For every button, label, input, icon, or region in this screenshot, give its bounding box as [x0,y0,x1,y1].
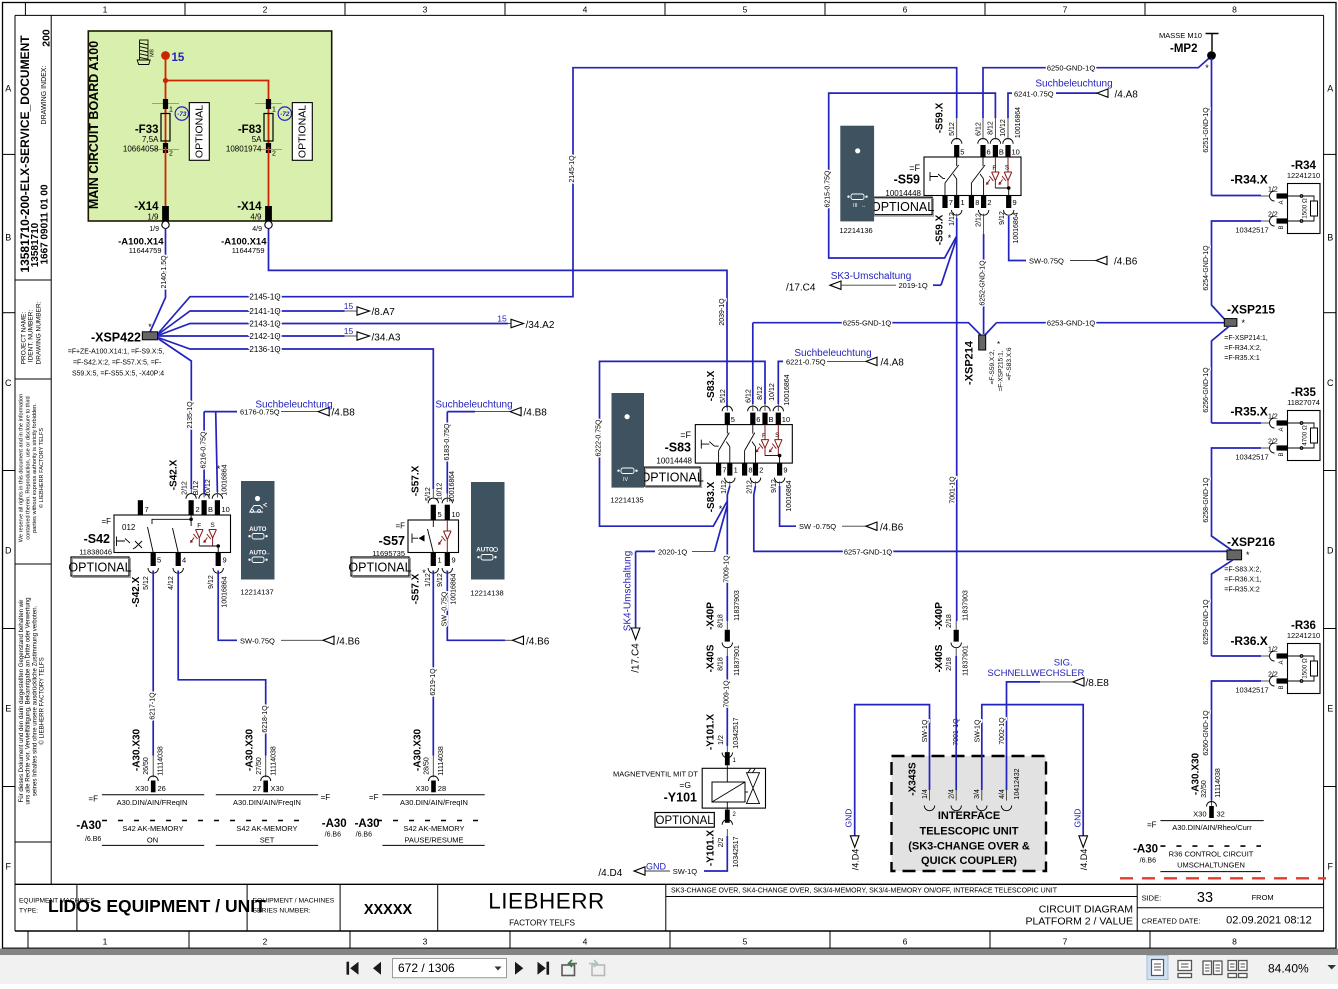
svg-text:6253-GND-1Q: 6253-GND-1Q [1047,319,1096,328]
svg-text:-MP2: -MP2 [1170,43,1197,55]
S42 top pin 7 [138,500,143,515]
svg-text:=F: =F [680,430,691,440]
svg-text:C: C [1327,378,1334,388]
S42 bottom pin 4 [176,553,181,567]
S59 optional box [873,197,932,215]
svg-text:-S57.X: -S57.X [411,573,422,604]
svg-text:6218-1Q: 6218-1Q [262,705,269,733]
svg-text:10016864: 10016864 [222,464,229,495]
svg-text:-XSP422: -XSP422 [91,331,141,345]
svg-text:2: 2 [263,937,268,947]
splice XSP216 [1227,550,1242,560]
wire 6176-0.75Q suchbeleuchtung [204,411,237,413]
svg-text:10016864: 10016864 [1013,212,1020,243]
S57 internal E symbol [412,534,418,544]
S57 internal switch contact [428,520,434,553]
svg-text:10/12: 10/12 [205,479,212,497]
A30 dashed separator lines [102,820,310,822]
toolbar zoom caret [1328,965,1337,970]
svg-text:/4.D4: /4.D4 [1079,849,1089,871]
A30 DIN AIN Rheo block [1160,820,1263,822]
svg-text:1/4: 1/4 [922,789,929,799]
svg-text:10: 10 [452,510,460,519]
fuse -F33 wire to X14 [165,147,167,206]
svg-text:10/12: 10/12 [1000,119,1007,137]
svg-text:1/2: 1/2 [1268,414,1278,421]
svg-text:1/12: 1/12 [721,480,728,494]
svg-text:/6.B6: /6.B6 [325,832,341,839]
wire S59 pin9 SW-0.75Q [1009,216,1026,261]
svg-text:*: * [1246,550,1250,560]
svg-text:=F-R34.X:2,: =F-R34.X:2, [1224,345,1261,352]
svg-text:-S83.X: -S83.X [706,370,717,401]
svg-text:OPTIONAL: OPTIONAL [656,815,715,827]
S42 top pin 10 [212,494,222,499]
bolt M8 icon [137,40,150,65]
svg-text:10342517: 10342517 [733,717,740,748]
wire red from 15 to junction [165,56,167,81]
svg-text:S42 AK-MEMORY: S42 AK-MEMORY [122,824,183,833]
svg-text:9: 9 [452,556,456,565]
svg-text:2: 2 [263,4,268,14]
svg-text:6254-GND-1Q: 6254-GND-1Q [1203,245,1210,291]
svg-text:S42 AK-MEMORY: S42 AK-MEMORY [236,824,297,833]
svg-text:1: 1 [103,937,108,947]
svg-text:11837901: 11837901 [963,645,970,676]
svg-text:-S59: -S59 [894,173,920,187]
svg-text:11644759: 11644759 [129,246,162,255]
svg-text:SW-0.75Q: SW-0.75Q [240,636,275,645]
S59 top pin 10 [1003,138,1013,143]
svg-text:OPTIONAL: OPTIONAL [871,200,934,214]
svg-text:CREATED DATE:: CREATED DATE: [1142,917,1201,926]
S42 rocker panel image [241,481,275,580]
svg-text:F: F [1328,862,1334,872]
svg-text:B: B [769,415,774,424]
svg-text:10: 10 [782,415,790,424]
svg-text:=F-R36.X:1,: =F-R36.X:1, [1224,577,1261,584]
wire 2140-1.5Q [150,229,166,333]
svg-text:012: 012 [122,523,136,532]
svg-text:1: 1 [438,556,442,565]
svg-text:2/4: 2/4 [949,789,956,799]
svg-text:-S42: -S42 [84,532,110,546]
svg-text:=F: =F [101,517,111,526]
svg-text:GND: GND [844,809,854,828]
svg-text:6258-GND-1Q: 6258-GND-1Q [1203,477,1210,523]
svg-text:© LIEBHERR FACTORY TELFS: © LIEBHERR FACTORY TELFS [38,428,45,508]
svg-text:26: 26 [158,784,166,793]
svg-text:IDENT. NUMBER:: IDENT. NUMBER: [28,310,35,363]
S59 internal T handle [930,172,943,181]
svg-text:9: 9 [783,466,787,475]
svg-text:3: 3 [423,937,428,947]
svg-text:/8.E8: /8.E8 [1086,678,1110,689]
svg-text:27: 27 [253,784,261,793]
svg-text:12214136: 12214136 [839,226,872,235]
svg-text:15: 15 [497,313,507,323]
svg-text:10342517: 10342517 [1235,226,1268,235]
svg-text:8: 8 [1232,937,1237,947]
svg-text:1667 09011 01 00: 1667 09011 01 00 [40,184,51,265]
svg-text:2020-1Q: 2020-1Q [658,548,687,557]
svg-text:8/12: 8/12 [988,121,995,135]
A30 block FReqIN ON [102,794,204,796]
svg-text:11827074: 11827074 [1287,398,1320,407]
svg-text:=F-S59.X:2,: =F-S59.X:2, [989,349,996,384]
svg-text:-72: -72 [280,111,290,118]
svg-text:-Y101.X: -Y101.X [706,714,717,750]
svg-text:12214138: 12214138 [470,589,503,598]
svg-text:8/12: 8/12 [757,386,764,400]
svg-text:2143-1Q: 2143-1Q [249,320,280,329]
S57 rocker panel image [471,482,505,580]
wire R36 pin B 6260-GND-1Q [1261,680,1270,682]
svg-text:-X343S: -X343S [908,762,919,796]
S83 top pin 5 [722,406,732,411]
svg-text:2/18: 2/18 [946,614,953,628]
svg-text:4: 4 [182,556,186,565]
toolbar continuous scroll icon [1178,961,1192,971]
svg-text:-X40S: -X40S [934,644,945,672]
svg-text:-S83.X: -S83.X [706,481,717,512]
svg-text:=F-XSP215:1,: =F-XSP215:1, [997,350,1004,391]
title side/from cell [1137,907,1324,909]
svg-text:10016864: 10016864 [1015,107,1022,138]
svg-text:32: 32 [1217,810,1225,819]
svg-text:S: S [210,522,215,529]
svg-text:=F: =F [321,793,331,802]
svg-text:=F: =F [1147,821,1157,830]
svg-text:1/2: 1/2 [1268,187,1278,194]
svg-text:SCHNELLWECHSLER: SCHNELLWECHSLER [987,668,1084,679]
fuse -F83 wire to X14 [268,147,270,206]
svg-text:=G: =G [679,780,691,790]
svg-text:A: A [1327,84,1333,94]
svg-text:SIG.: SIG. [1054,658,1073,669]
header column ticks [24,3,26,16]
svg-text:MAIN CIRCUIT BOARD A100: MAIN CIRCUIT BOARD A100 [87,41,101,209]
svg-text:GND: GND [646,862,667,872]
wire SW-1Q to Y101 [726,829,728,836]
toolbar two page scroll icon [1228,961,1237,971]
S59 bottom pin 2 [981,196,986,209]
svg-text:1: 1 [169,107,173,114]
svg-text:B: B [208,505,213,514]
title block frame [15,883,1324,885]
svg-text:2039-1Q: 2039-1Q [719,298,726,326]
svg-text:2/2: 2/2 [1268,439,1278,446]
S42 bottom pin 9 [216,553,221,567]
svg-text:11114038: 11114038 [438,746,445,776]
svg-text:/4.B6: /4.B6 [880,523,904,534]
footer row [3,947,1337,949]
svg-text:/4.A8: /4.A8 [1115,90,1139,101]
svg-text:6250-GND-1Q: 6250-GND-1Q [1047,64,1096,73]
main circuit board A100 green area [88,31,331,221]
S83 top pin 10 [773,406,783,411]
svg-text:=F-S42.X:2, =F-S57.X:5, =F-: =F-S42.X:2, =F-S57.X:5, =F- [73,360,161,367]
svg-text:7: 7 [1063,937,1068,947]
svg-text:DRAWING NUMBER:: DRAWING NUMBER: [35,301,42,364]
svg-text:OPTIONAL: OPTIONAL [641,471,704,485]
svg-text:=F-S83.X:6: =F-S83.X:6 [1006,347,1013,380]
S59 bottom pin 7 [942,196,947,209]
svg-text:26/50: 26/50 [143,757,150,775]
svg-text:A: A [1279,200,1285,204]
wire S59 pin10 6241-0.75Q [1007,118,1009,139]
svg-text:B: B [1327,233,1333,243]
svg-text:2/12: 2/12 [975,213,982,227]
wire R35 pin A feed [1212,422,1262,424]
wire R36 pin A feed [1212,655,1262,657]
S59 bottom pin 1 [954,196,959,209]
svg-text:-X40S: -X40S [705,644,716,672]
svg-text:5/12: 5/12 [720,389,727,403]
svg-text:A: A [5,84,11,94]
svg-text:5: 5 [438,510,442,519]
svg-text:11838046: 11838046 [79,548,112,557]
svg-text:=F-R35.X:1: =F-R35.X:1 [1224,355,1260,362]
toolbar background [0,955,1338,984]
wire 7001-1Q into X343S [955,656,957,790]
svg-text:9/12: 9/12 [999,211,1006,225]
wire 6259-GND-1Q [1212,560,1234,656]
svg-text:8/18: 8/18 [717,657,724,671]
svg-text:-Y101: -Y101 [664,791,697,805]
svg-text:(SK3-CHANGE OVER &: (SK3-CHANGE OVER & [908,841,1030,853]
svg-text:UMSCHALTUNGEN: UMSCHALTUNGEN [1177,861,1245,870]
svg-text:2: 2 [272,151,276,158]
svg-text:2/2: 2/2 [1268,672,1278,679]
svg-text:4700 Ω: 4700 Ω [1302,425,1309,446]
svg-text:672 / 1306: 672 / 1306 [398,961,455,975]
svg-text:OPTIONAL: OPTIONAL [297,105,309,158]
svg-text:6215-0.75Q: 6215-0.75Q [825,170,832,208]
svg-text:EQUIPMENT / MACHINES: EQUIPMENT / MACHINES [253,898,335,905]
svg-text:/34.A2: /34.A2 [526,320,555,331]
svg-text:-A30.X30: -A30.X30 [412,728,423,771]
svg-text:32/50: 32/50 [1201,780,1208,798]
svg-text:28: 28 [438,784,446,793]
svg-text:1: 1 [961,198,965,207]
svg-text:10016864: 10016864 [451,573,458,604]
svg-text:B: B [999,148,1004,157]
svg-text:2/18: 2/18 [946,657,953,671]
wire 2039 tail to S83 pin5 [726,408,728,412]
svg-text:SK4-Umschaltung: SK4-Umschaltung [623,551,634,632]
svg-text:200: 200 [41,29,53,47]
svg-text:DRAWING INDEX:: DRAWING INDEX: [41,66,48,125]
fuse -F33 terminal 2 [163,143,168,153]
S42 optional box [71,557,129,576]
svg-text:B: B [1279,225,1285,229]
interface telescopic unit box [892,756,1047,871]
S83 top pin 6 [748,406,758,411]
svg-text:9/12: 9/12 [771,479,778,493]
S42 internal T handle [117,537,131,547]
svg-text:/4.D4: /4.D4 [598,868,622,879]
switch S42 box [114,515,231,553]
svg-text:A30.DIN/AIN/FreqIN: A30.DIN/AIN/FreqIN [400,798,468,807]
svg-text:X30: X30 [271,784,284,793]
svg-text:-A30.X30: -A30.X30 [245,728,256,771]
svg-text:D: D [1327,546,1334,556]
svg-text:SW-1Q: SW-1Q [673,867,698,876]
svg-text:*: * [948,233,952,243]
svg-text:contained therein. Reproductio: contained therein. Reproduction, use or … [25,396,31,539]
svg-text:ON: ON [147,836,158,845]
svg-text:PROJECT NAME:: PROJECT NAME: [20,312,27,365]
svg-text:10: 10 [222,505,230,514]
svg-text:7: 7 [1063,4,1068,14]
svg-text:MAGNETVENTIL MIT DT: MAGNETVENTIL MIT DT [613,770,698,779]
svg-text:E: E [1327,704,1333,714]
svg-text:84.40%: 84.40% [1268,962,1309,976]
svg-text:12241210: 12241210 [1287,631,1320,640]
svg-text:10016864: 10016864 [222,576,229,607]
svg-text:11837903: 11837903 [734,590,741,621]
S59 bottom pin 8 [969,196,974,209]
svg-text:=F: =F [395,522,405,531]
wire 6251-GND-1Q [1211,58,1213,196]
svg-text:CIRCUIT DIAGRAM: CIRCUIT DIAGRAM [1039,904,1133,916]
svg-text:-R35.X: -R35.X [1230,405,1267,419]
svg-text:B: B [5,233,11,243]
svg-text:C: C [5,378,12,388]
svg-text:1/2: 1/2 [1268,647,1278,654]
svg-text:SW-1Q: SW-1Q [974,719,981,742]
S42 top pin B [199,494,209,499]
svg-text:12214137: 12214137 [240,588,273,597]
svg-text:AUTO: AUTO [476,547,494,554]
splice XSP214 [753,323,982,336]
svg-text:OPTIONAL: OPTIONAL [348,561,411,575]
svg-text:-R36.X: -R36.X [1230,634,1267,648]
wire S57 pin1 down 6219-1Q [432,571,434,756]
S57 internal LED [444,520,452,553]
svg-text:/17.C4: /17.C4 [631,643,642,673]
svg-text:X30: X30 [135,784,148,793]
svg-text:12214135: 12214135 [610,496,643,505]
svg-text:2: 2 [169,151,173,158]
svg-text:10/12: 10/12 [437,483,444,501]
svg-text:-S42.X: -S42.X [131,576,142,607]
toolbar nav next-page icon [515,962,523,975]
header row line [15,14,1324,16]
svg-text:15: 15 [172,52,185,64]
svg-text:=F-XSP214:1,: =F-XSP214:1, [1224,335,1268,342]
wire 2141-1Q [158,311,345,335]
svg-text:A30.DIN/AIN/Rheo/Curr: A30.DIN/AIN/Rheo/Curr [1172,823,1252,832]
S59 bottom pin 9 [1006,196,1011,209]
wire S59 pin1 down 7001 chain [956,214,958,218]
svg-text:9: 9 [223,556,227,565]
svg-text:4: 4 [583,937,588,947]
wire S59 pin6 up 6250-GND-1Q [982,118,984,139]
svg-text:2145-1Q: 2145-1Q [569,155,576,183]
svg-text:-X14: -X14 [134,201,159,213]
toolbar page number box [393,959,507,978]
switch S57 box [408,520,459,553]
svg-text:PAUSE/RESUME: PAUSE/RESUME [404,836,463,845]
svg-text:28/50: 28/50 [424,757,431,775]
svg-text:8/18: 8/18 [717,614,724,628]
wire S83 pin2 down 6257-GND-1Q [755,481,757,486]
svg-text:5: 5 [157,556,161,565]
svg-text:D: D [5,546,12,556]
svg-text:A: A [1279,427,1285,431]
svg-text:SERIES NUMBER:: SERIES NUMBER: [253,908,311,915]
wire 2143-1Q [158,324,508,336]
svg-text:5: 5 [743,937,748,947]
connector A100.X14 1/9 socket [162,221,169,228]
svg-text:1/12: 1/12 [425,573,432,587]
S57 top pin 10 [442,498,452,503]
svg-text:SW-0.75Q: SW-0.75Q [1029,257,1064,266]
svg-text:6241-0.75Q: 6241-0.75Q [1014,90,1054,99]
wire red junction down to F33 [165,81,167,114]
svg-text:8: 8 [975,198,979,207]
svg-text:1/2: 1/2 [718,735,725,745]
toolbar nav prev-page icon [373,962,381,975]
svg-text:GND: GND [1072,809,1082,828]
svg-text:1: 1 [272,107,276,114]
Y101 optional box [655,813,714,828]
S42 bottom pin 5 [151,553,156,567]
sidebar column borders [50,15,52,884]
svg-text:1500 Ω: 1500 Ω [1302,198,1309,219]
svg-text:B: B [1279,685,1285,689]
svg-text:Suchbeleuchtung: Suchbeleuchtung [1035,79,1112,90]
svg-text:1/9: 1/9 [149,226,159,233]
svg-text:6260-GND-1Q: 6260-GND-1Q [1203,710,1210,756]
X343S pin 1/4 [924,806,934,811]
svg-text:AUTO: AUTO [249,526,267,533]
svg-text:5/12: 5/12 [425,487,432,501]
wire suchbeleuchtung S57 [447,411,475,413]
svg-text:=F-S83.X:2,: =F-S83.X:2, [1224,567,1261,574]
svg-text:7: 7 [145,505,149,514]
X343S pin 3/4 [977,806,987,811]
wire R35 pin B 6258-GND-1Q [1261,447,1270,449]
svg-text:Suchbeleuchtung: Suchbeleuchtung [255,399,332,410]
wire SK4-Umschaltung down [635,551,637,628]
svg-text:4/9: 4/9 [252,226,262,233]
switch S83 box [695,425,792,464]
splice XSP215 [1224,319,1237,327]
S59 rocker panel image [840,126,874,222]
wire 6256-GND-1Q [1212,326,1230,423]
svg-text:11644759: 11644759 [232,246,265,255]
-R36 internal resistor element [1288,656,1315,681]
S83 internal switch 1 [719,425,730,464]
Y101 pin 2 [726,802,728,810]
svg-text:XXXXX: XXXXX [364,902,413,918]
svg-text:A30.DIN/AIN/FReqIN: A30.DIN/AIN/FReqIN [117,798,188,807]
svg-text:/6.B6: /6.B6 [1140,858,1156,865]
svg-text:B: B [1279,452,1285,456]
svg-text:/6.B6: /6.B6 [356,832,372,839]
svg-text:6259-GND-1Q: 6259-GND-1Q [1203,599,1210,645]
svg-text:6222-0.75Q: 6222-0.75Q [596,419,603,457]
svg-text:III: III [853,203,858,209]
svg-text:LIEBHERR: LIEBHERR [488,889,605,914]
svg-text:R36 CONTROL CIRCUIT: R36 CONTROL CIRCUIT [1169,850,1254,859]
svg-text:10342517: 10342517 [1235,453,1268,462]
svg-text:/4.D4: /4.D4 [851,849,861,871]
wire S83 pinB bracket 6222-0.75Q [764,404,766,411]
